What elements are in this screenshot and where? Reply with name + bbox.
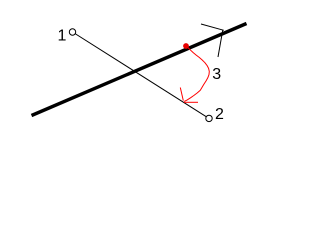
tick mark steep barb [218, 30, 223, 57]
thick line [32, 24, 247, 116]
point 1 [69, 29, 75, 35]
svg-text:2: 2 [215, 106, 224, 123]
tick mark shallow barb [201, 24, 224, 30]
arc arrowhead barb right [184, 101, 198, 103]
svg-text:1: 1 [58, 27, 67, 44]
arc 3 [184, 47, 209, 101]
red point on thick line [183, 43, 189, 49]
wire segment 1-2 [73, 32, 210, 118]
arc arrowhead barb up [180, 88, 183, 101]
point 2 [206, 115, 212, 121]
svg-text:3: 3 [212, 66, 221, 83]
